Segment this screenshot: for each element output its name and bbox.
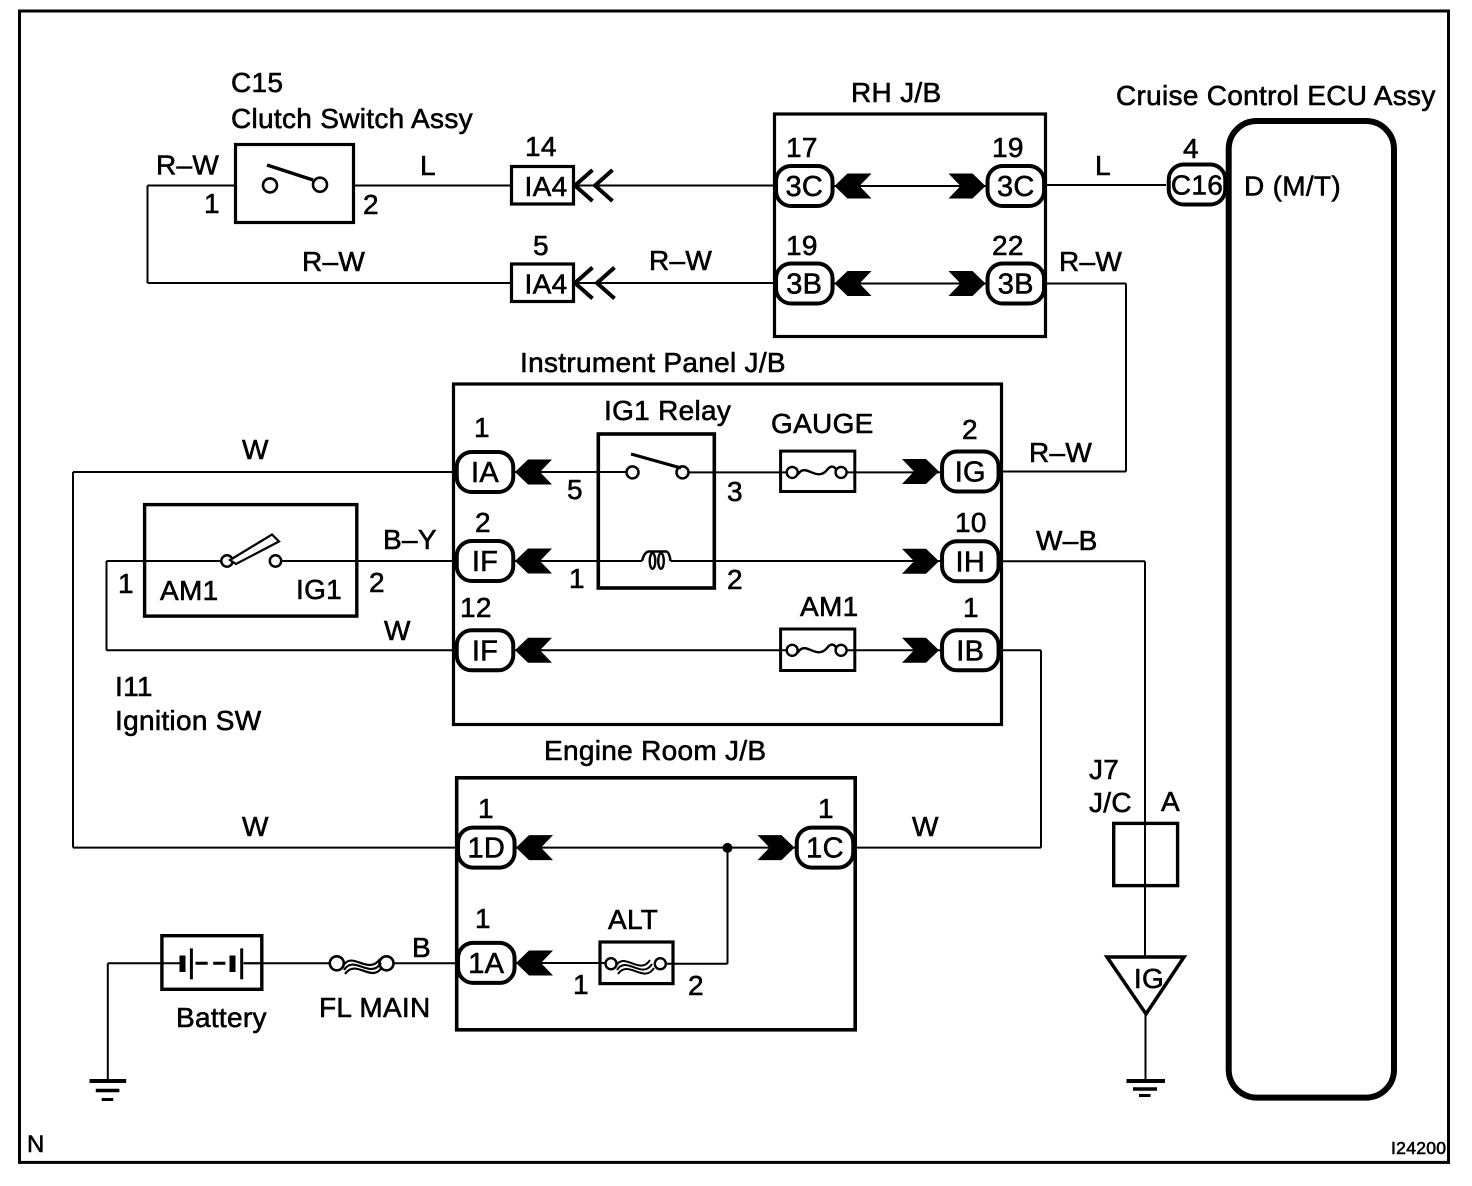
svg-text:IF: IF — [472, 546, 498, 578]
svg-text:I11: I11 — [115, 671, 153, 702]
svg-text:R–W: R–W — [156, 150, 219, 181]
svg-text:RH J/B: RH J/B — [851, 77, 941, 108]
svg-text:22: 22 — [992, 230, 1024, 261]
svg-text:GAUGE: GAUGE — [771, 408, 874, 439]
svg-text:Ignition SW: Ignition SW — [115, 705, 262, 736]
svg-text:2: 2 — [363, 189, 379, 220]
svg-text:IG1 Relay: IG1 Relay — [604, 395, 731, 426]
svg-text:10: 10 — [955, 507, 987, 538]
svg-text:19: 19 — [992, 132, 1024, 163]
svg-text:A: A — [1161, 786, 1180, 817]
svg-text:1: 1 — [204, 188, 220, 219]
svg-text:IB: IB — [956, 635, 984, 667]
svg-text:Engine Room J/B: Engine Room J/B — [544, 735, 766, 766]
svg-text:N: N — [27, 1131, 45, 1158]
svg-text:IA: IA — [471, 457, 499, 489]
svg-text:Clutch Switch Assy: Clutch Switch Assy — [231, 103, 473, 134]
svg-text:IA4: IA4 — [525, 171, 568, 202]
svg-text:12: 12 — [460, 592, 492, 623]
svg-text:1D: 1D — [467, 833, 505, 865]
svg-text:2: 2 — [962, 414, 978, 445]
svg-text:5: 5 — [533, 230, 549, 261]
svg-text:1: 1 — [478, 793, 494, 824]
svg-text:1: 1 — [474, 412, 490, 443]
svg-text:IG: IG — [1134, 963, 1164, 994]
svg-text:19: 19 — [786, 230, 818, 261]
svg-text:Cruise Control ECU Assy: Cruise Control ECU Assy — [1116, 80, 1436, 111]
svg-text:AM1: AM1 — [160, 575, 218, 606]
svg-text:L: L — [1095, 150, 1111, 181]
svg-text:FL MAIN: FL MAIN — [319, 992, 431, 1023]
svg-text:J7: J7 — [1089, 754, 1119, 785]
svg-text:IH: IH — [955, 546, 985, 578]
svg-text:W: W — [912, 811, 939, 842]
svg-text:W: W — [384, 615, 411, 646]
svg-text:D (M/T): D (M/T) — [1244, 171, 1341, 202]
svg-text:1: 1 — [118, 568, 134, 599]
svg-text:IF: IF — [472, 635, 498, 667]
svg-text:R–W: R–W — [1059, 246, 1122, 277]
svg-text:1: 1 — [573, 969, 589, 1000]
svg-text:3C: 3C — [785, 171, 823, 203]
svg-text:1: 1 — [475, 903, 491, 934]
svg-text:Instrument Panel J/B: Instrument Panel J/B — [520, 347, 786, 378]
svg-text:1: 1 — [569, 563, 585, 594]
svg-text:L: L — [420, 150, 436, 181]
svg-text:14: 14 — [525, 131, 557, 162]
svg-text:3B: 3B — [786, 269, 822, 301]
svg-text:IA4: IA4 — [525, 269, 568, 300]
svg-text:B: B — [412, 932, 431, 963]
svg-text:17: 17 — [786, 132, 818, 163]
svg-text:B–Y: B–Y — [383, 524, 437, 555]
svg-text:1: 1 — [963, 592, 979, 623]
svg-text:3B: 3B — [998, 269, 1034, 301]
svg-text:1: 1 — [818, 793, 834, 824]
svg-text:2: 2 — [727, 564, 743, 595]
svg-text:IG: IG — [955, 457, 986, 489]
svg-text:ALT: ALT — [608, 904, 658, 935]
svg-text:AM1: AM1 — [800, 591, 858, 622]
svg-text:IG1: IG1 — [296, 574, 342, 605]
svg-text:3: 3 — [727, 476, 743, 507]
svg-text:5: 5 — [567, 474, 583, 505]
svg-text:J/C: J/C — [1089, 787, 1132, 818]
svg-text:W: W — [242, 811, 269, 842]
svg-text:1A: 1A — [468, 948, 504, 980]
svg-text:2: 2 — [688, 970, 704, 1001]
svg-text:Battery: Battery — [176, 1002, 267, 1033]
svg-text:3C: 3C — [997, 171, 1035, 203]
svg-text:C16: C16 — [1171, 170, 1223, 201]
svg-text:4: 4 — [1183, 133, 1199, 164]
svg-text:I24200: I24200 — [1391, 1138, 1446, 1158]
svg-text:R–W: R–W — [649, 245, 712, 276]
svg-text:W: W — [242, 434, 269, 465]
svg-text:W–B: W–B — [1036, 525, 1098, 556]
svg-text:C15: C15 — [231, 67, 283, 98]
svg-text:R–W: R–W — [1029, 437, 1092, 468]
svg-text:1C: 1C — [806, 833, 844, 865]
svg-text:2: 2 — [369, 567, 385, 598]
svg-text:R–W: R–W — [302, 246, 365, 277]
svg-text:2: 2 — [475, 507, 491, 538]
